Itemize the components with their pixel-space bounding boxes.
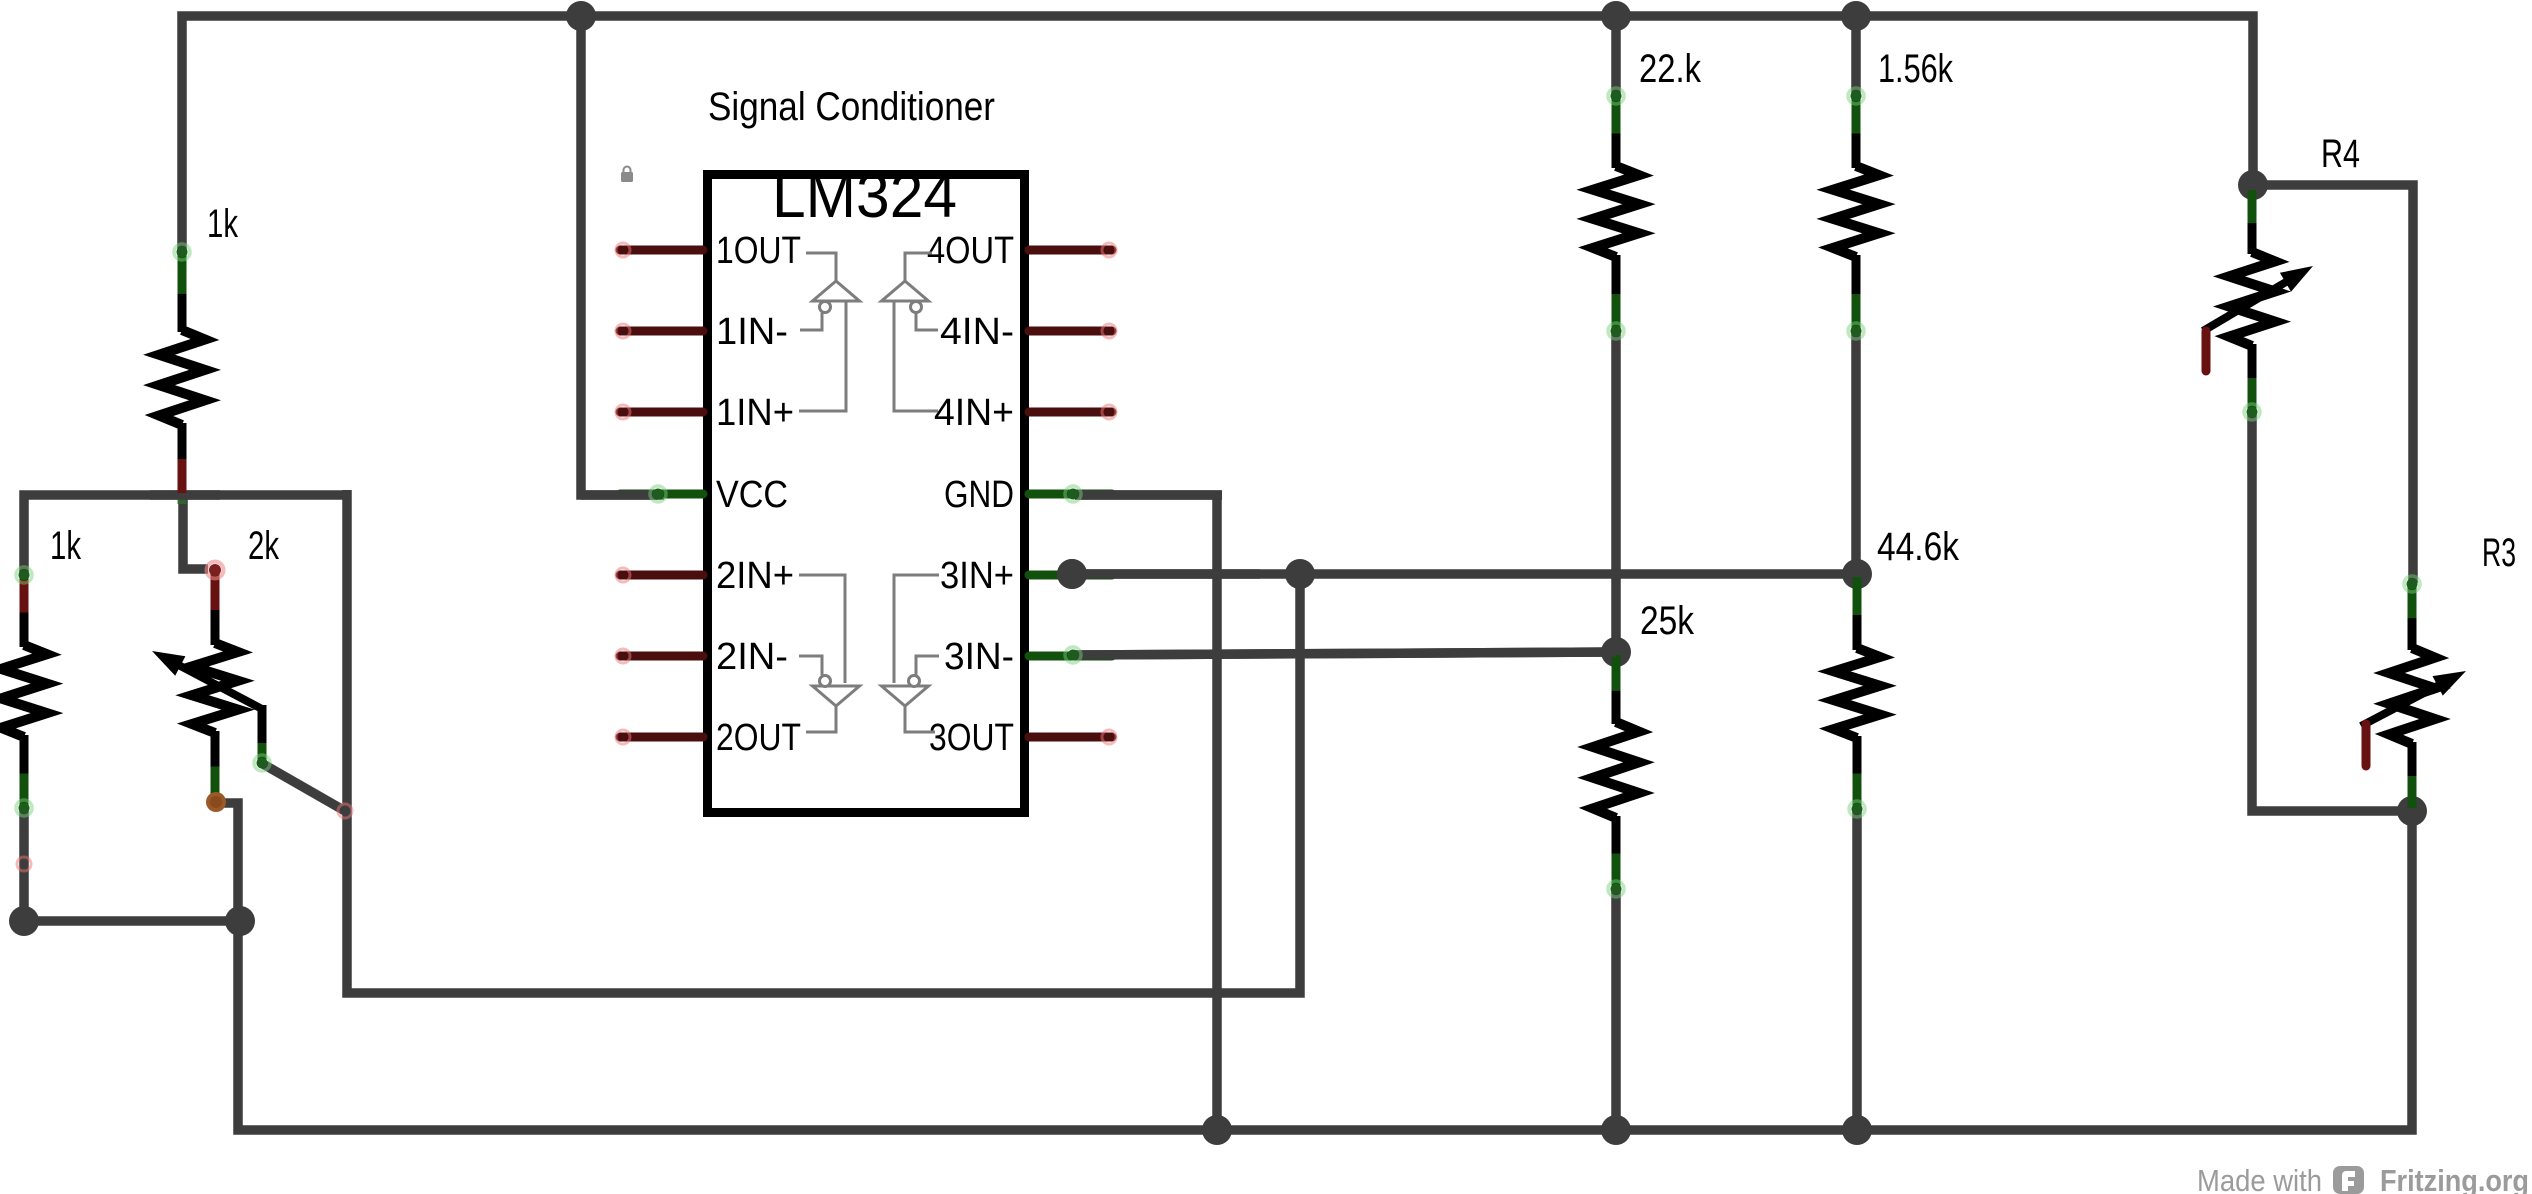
wire: GND pin right then down to bottom bus <box>1075 495 1217 1130</box>
pin 2OUT (left, y=737) <box>616 730 703 744</box>
wire: jog from 1k bottom down to 2k pot top <box>183 495 208 569</box>
pin GND (right, y=494) <box>1029 490 1112 499</box>
junction: top bus / R4 top <box>2238 170 2268 200</box>
wire: 44.6k bottom to bottom bus <box>1852 808 1862 1130</box>
potentiometer 2k: bottom pin (junction) <box>206 792 226 812</box>
wire: 1k left bottom to bus segment <box>24 808 240 921</box>
svg-text:1OUT: 1OUT <box>716 230 801 272</box>
potentiometer 2k: body zigzag and leads <box>192 572 238 800</box>
svg-text:3OUT: 3OUT <box>929 717 1014 759</box>
node: VCC pin terminal <box>650 486 666 502</box>
wire: 3IN- to 25k top junction <box>1075 652 1616 655</box>
svg-text:3IN-: 3IN- <box>944 636 1014 678</box>
wire: 2k pot bottom to bottom bus to R3 bottom <box>218 803 2412 1130</box>
wire: top bus to 22k top <box>1611 11 1621 96</box>
pin label 3OUT <box>929 717 1014 759</box>
pin label VCC <box>716 474 788 516</box>
junction: 1k left bottom / bus <box>9 906 39 936</box>
pin label 2IN- <box>716 636 788 678</box>
wire: R4 junction to R3 top <box>2253 185 2413 583</box>
pin 2IN+ (left, y=575) <box>616 568 703 582</box>
junction: 3IN+ net / 1.56k-44.6k column <box>1842 559 1872 589</box>
svg-text:1IN-: 1IN- <box>716 311 788 353</box>
junction: R3 bottom / bottom bus riser <box>2397 796 2427 826</box>
label 22.k <box>1639 47 1702 91</box>
label 44.6k <box>1877 525 1960 569</box>
svg-text:4IN-: 4IN- <box>940 311 1014 353</box>
pin 3IN+ (right, y=575) <box>1029 571 1112 580</box>
wire: 22k bottom down to 25k junction <box>1611 330 1621 655</box>
wire overlay on GND pin <box>1075 490 1222 500</box>
pin 1IN+ (left, y=412) <box>616 405 703 419</box>
svg-text:2OUT: 2OUT <box>716 717 801 759</box>
label 2k <box>248 524 280 568</box>
wire: R4 bottom down and right to R3 bottom junction <box>2252 410 2412 811</box>
potentiometer R3: body zigzag and leads <box>2389 576 2435 808</box>
pin 3OUT (right, y=737) <box>1029 730 1116 744</box>
pin label 2IN+ <box>716 555 794 597</box>
op-amp 4 symbol (inside IC, top-right) <box>882 253 939 411</box>
op-amp U1 LM324: body outline <box>708 175 1025 813</box>
junction: 3IN- net / 22k-25k column <box>1601 637 1631 667</box>
potentiometer 2k: wiper lead <box>254 705 270 771</box>
pin label 4OUT <box>927 230 1014 272</box>
pin label 4IN- <box>940 311 1014 353</box>
svg-text:VCC: VCC <box>716 474 788 516</box>
potentiometer 2k: top pin (red terminal) <box>207 562 224 579</box>
wire: 3IN+ horizontal net to 44.6k top <box>1072 569 1857 579</box>
resistor 22.k <box>1593 88 1639 339</box>
svg-text:4IN+: 4IN+ <box>934 392 1014 434</box>
svg-text:GND: GND <box>944 474 1014 516</box>
op-amp U1 label LM324 <box>772 161 957 231</box>
svg-text:22.k: 22.k <box>1639 47 1702 91</box>
pin 3IN- (right, y=656) <box>1029 652 1112 661</box>
wire: 25k bottom to bottom bus <box>1611 888 1621 1130</box>
wire overlay on 3IN- pin <box>1075 652 1616 655</box>
junction: 3IN+ pin <box>1057 559 1087 589</box>
pin 1IN- (left, y=331) <box>616 324 703 338</box>
pin label 1IN- <box>716 311 788 353</box>
pin 1OUT (left, y=250) <box>616 243 703 257</box>
junction: top bus / 1.56k <box>1841 1 1871 31</box>
wire overlay on 3IN+ pin <box>1057 559 1260 589</box>
potentiometer R4: wiper arrow <box>2203 266 2313 331</box>
pin 2IN- (left, y=656) <box>616 649 703 663</box>
watermark: Made with <box>2197 1163 2322 1194</box>
node: 3IN- pin terminal <box>1065 647 1081 663</box>
potentiometer R4: wiper lead (unconnected) <box>2202 331 2211 371</box>
node: 1k top resistor bottom connection nub <box>178 487 187 504</box>
svg-text:R3: R3 <box>2482 531 2516 575</box>
svg-text:2k: 2k <box>248 524 280 568</box>
svg-text:1IN+: 1IN+ <box>716 392 794 434</box>
junction: 3IN+ net / x1300 vertical <box>1285 559 1315 589</box>
svg-text:1k: 1k <box>207 202 239 246</box>
node: GND pin terminal <box>1065 486 1081 502</box>
svg-text:Signal Conditioner: Signal Conditioner <box>708 85 995 129</box>
pin label 3IN- <box>944 636 1014 678</box>
pin 4IN- (right, y=331) <box>1029 324 1116 338</box>
icon: part lock <box>621 167 633 183</box>
label 1k (left resistor) <box>50 524 82 568</box>
wire: top bus to 1.56k top <box>1851 11 1861 96</box>
label 1.56k <box>1878 47 1954 91</box>
watermark: Fritzing.org <box>2380 1163 2529 1194</box>
junction: 25k / bottom bus <box>1601 1115 1631 1145</box>
resistor 44.6k <box>1834 577 1880 817</box>
pin label 1OUT <box>716 230 801 272</box>
resistor 25k <box>1593 655 1639 897</box>
junction: top bus / 22k <box>1601 1 1631 31</box>
op-amp 2 symbol (inside IC, bottom-left) <box>799 575 860 732</box>
pin 4OUT (right, y=250) <box>1029 243 1116 257</box>
svg-text:44.6k: 44.6k <box>1877 525 1960 569</box>
label 1k (top left resistor) <box>207 202 239 246</box>
label 25k <box>1640 599 1695 643</box>
pin label GND <box>944 474 1014 516</box>
pin 4IN+ (right, y=412) <box>1029 405 1116 419</box>
potentiometer R4: body zigzag and leads <box>2229 190 2275 420</box>
wire: left horizontal rail to 1k left resistor <box>24 495 347 574</box>
op-amp 1 symbol (inside IC, top-left) <box>799 253 860 411</box>
svg-text:25k: 25k <box>1640 599 1695 643</box>
resistor 1.56k <box>1833 88 1879 339</box>
wire overlay on VCC pin <box>581 490 658 500</box>
junction: 44.6k / bottom bus <box>1842 1115 1872 1145</box>
pin label 2OUT <box>716 717 801 759</box>
pin label 4IN+ <box>934 392 1014 434</box>
svg-text:2IN+: 2IN+ <box>716 555 794 597</box>
label R3 <box>2482 531 2516 575</box>
svg-text:R4: R4 <box>2321 132 2360 176</box>
svg-text:4OUT: 4OUT <box>927 230 1014 272</box>
junction: GND drop / bottom bus <box>1202 1115 1232 1145</box>
wire: VCC drop from top bus to VCC pin <box>581 11 664 495</box>
wire segment over nub <box>150 490 220 500</box>
node: wiper wire end on vertical <box>338 804 352 818</box>
svg-text:Fritzing.org: Fritzing.org <box>2380 1163 2529 1194</box>
potentiometer R3: wiper arrow <box>2361 671 2466 726</box>
junction: top bus / VCC drop <box>566 1 596 31</box>
svg-text:1.56k: 1.56k <box>1878 47 1954 91</box>
svg-text:2IN-: 2IN- <box>716 636 788 678</box>
svg-text:Made with: Made with <box>2197 1163 2322 1194</box>
junction: 2k pot net / bus <box>225 906 255 936</box>
op-amp 3 symbol (inside IC, bottom-right) <box>882 575 940 732</box>
svg-text:1k: 1k <box>50 524 82 568</box>
svg-text:LM324: LM324 <box>772 161 957 231</box>
potentiometer 2k: wiper arrow <box>152 651 262 709</box>
pin label 3IN+ <box>940 555 1014 597</box>
wire: x347 vertical + y993 horizontal + rise to 3IN+ net <box>347 490 1300 993</box>
resistor 1k (top left), value 1k <box>159 244 205 493</box>
pin VCC (left, y=494) <box>620 490 703 499</box>
label R4 <box>2321 132 2360 176</box>
watermark: Fritzing logo <box>2333 1166 2364 1194</box>
svg-text:3IN+: 3IN+ <box>940 555 1014 597</box>
wire: 2k wiper diagonal to x347 vertical <box>263 764 345 811</box>
label Signal Conditioner <box>708 85 995 129</box>
wire: 1.56k bottom to 44.6k junction <box>1851 330 1861 576</box>
potentiometer R3: wiper lead (unconnected) <box>2362 724 2371 766</box>
resistor 1k (left), value 1k <box>1 567 47 871</box>
wire: top power bus with end drops (1k top to R4 junction) <box>182 16 2253 255</box>
pin label 1IN+ <box>716 392 794 434</box>
